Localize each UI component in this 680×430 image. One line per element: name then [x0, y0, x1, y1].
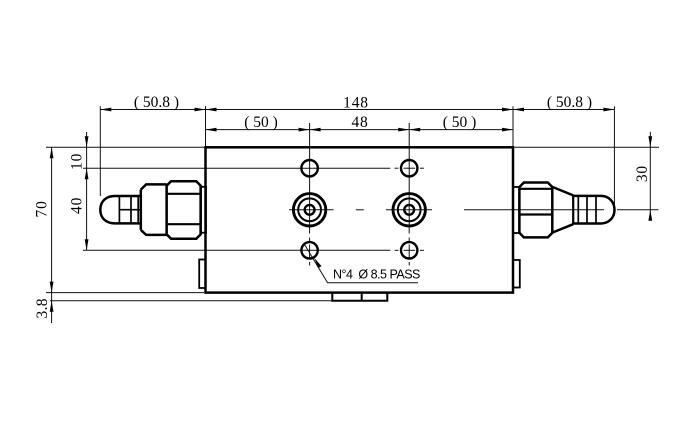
svg-text:( 50 ): ( 50 ) — [443, 114, 477, 131]
svg-text:3.8: 3.8 — [34, 298, 51, 318]
svg-text:30: 30 — [634, 165, 651, 182]
svg-text:48: 48 — [351, 114, 368, 131]
svg-text:( 50.8 ): ( 50.8 ) — [547, 94, 592, 111]
svg-text:148: 148 — [343, 94, 369, 111]
svg-text:10: 10 — [68, 153, 85, 170]
svg-text:( 50.8 ): ( 50.8 ) — [134, 94, 179, 111]
svg-text:70: 70 — [33, 200, 50, 217]
svg-text:( 50 ): ( 50 ) — [244, 114, 278, 131]
svg-text:40: 40 — [68, 197, 85, 214]
svg-text:N°4 Ø 8.5 PASS: N°4 Ø 8.5 PASS — [333, 268, 420, 282]
